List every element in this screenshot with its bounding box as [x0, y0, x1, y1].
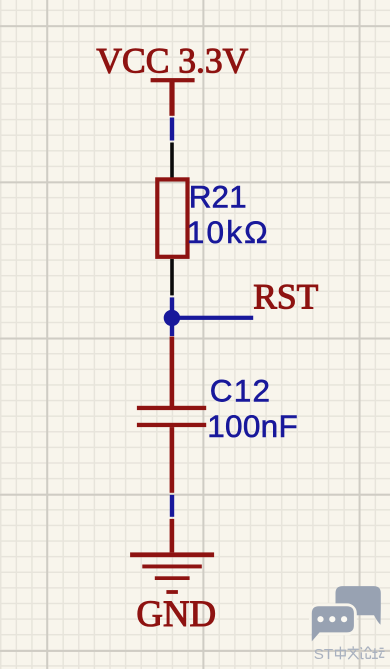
svg-text:VCC 3.3V: VCC 3.3V [96, 40, 248, 80]
svg-text:RST: RST [253, 277, 318, 317]
svg-text:R21: R21 [189, 178, 247, 214]
svg-text:C12: C12 [210, 373, 271, 409]
svg-text:100nF: 100nF [207, 408, 298, 444]
svg-text:GND: GND [136, 593, 216, 634]
svg-text:10kΩ: 10kΩ [187, 214, 270, 250]
svg-text:ST: ST [314, 646, 333, 663]
